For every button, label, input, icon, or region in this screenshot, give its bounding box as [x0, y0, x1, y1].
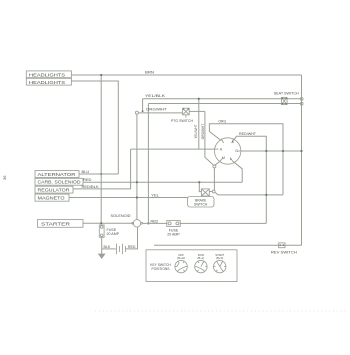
legend circle OFF	[175, 253, 187, 273]
tick bottom-right L	[230, 158, 232, 161]
wire rev switch row	[154, 244, 302, 246]
node brake terminal	[212, 190, 215, 193]
svg-text:POSITIONS: POSITIONS	[152, 267, 171, 271]
junction V4 YEL row	[136, 196, 138, 198]
brake switch callout	[188, 197, 215, 208]
junction V4 RED row	[136, 181, 138, 183]
carb solenoid box	[35, 178, 83, 185]
wire YEL/BLK row (upper seat wire)	[143, 98, 302, 100]
svg-text:36: 36	[2, 175, 7, 180]
wire M junction down to brake node	[213, 168, 215, 190]
junction brake red/wht	[265, 194, 267, 196]
ground symbol	[98, 249, 106, 259]
svg-text:G: G	[235, 149, 238, 153]
solenoid circle	[132, 220, 143, 227]
svg-text:HEADLIGHTS: HEADLIGHTS	[29, 72, 65, 77]
label FUSE 20 AMP	[107, 228, 120, 236]
node ORG/WHT open terminal	[135, 111, 138, 114]
wire V8 down + diagonal to M junction	[205, 111, 213, 164]
wire BLU row	[79, 173, 118, 175]
wire brake row right	[215, 192, 283, 195]
regulator box	[35, 186, 73, 193]
wire vertical from BRN junction down to starter wire	[100, 75, 102, 223]
svg-text:STARTER: STARTER	[41, 222, 70, 227]
fuse F1 vertical	[99, 225, 104, 237]
svg-text:ORG: ORG	[218, 119, 226, 123]
pto switch PTO	[183, 108, 190, 115]
wire A terminal row	[131, 148, 215, 150]
battery symbol	[117, 244, 126, 255]
wire BRN headlight1 to right vertical	[71, 74, 301, 76]
wire starter row	[83, 222, 133, 224]
wire fuse2 to red/wht vertical	[180, 222, 266, 224]
wire battery BLK lead	[102, 248, 116, 250]
node seat terminal upper	[300, 98, 303, 101]
svg-text:YEL/WHT: YEL/WHT	[194, 124, 198, 138]
svg-text:YEL/BLK: YEL/BLK	[145, 94, 166, 98]
svg-text:SWITCH: SWITCH	[194, 203, 208, 207]
headlight box 1	[26, 71, 71, 78]
junction B right	[300, 150, 302, 152]
svg-text:SEAT SWITCH: SEAT SWITCH	[274, 92, 300, 96]
fuse F2 horizontal	[167, 220, 180, 226]
wire M diagonal	[214, 161, 220, 165]
tick bottom-left M	[220, 158, 223, 161]
key switch circle U1	[215, 138, 241, 164]
junction brake feed	[198, 181, 200, 183]
rev switch symbol	[279, 243, 285, 248]
label FUSE 20 AMP f2	[167, 229, 180, 237]
wire ORG/WHT row	[138, 112, 182, 114]
wire YEL/BLK drop to ORG/WHT row	[142, 99, 144, 112]
wire headlight2 down to BLU row	[71, 81, 118, 174]
svg-text:RED: RED	[128, 245, 136, 249]
wire vertical seat-lower to RED fuse wire	[147, 104, 149, 224]
node M junction	[213, 165, 216, 168]
svg-text:REV SWITCH: REV SWITCH	[271, 251, 297, 255]
svg-text:BLU: BLU	[82, 169, 90, 174]
wire solenoid to fuse2 RED	[143, 222, 167, 224]
wire ORG/WHT continues to V8	[189, 110, 205, 112]
wire right vertical BRN down to rev switch	[301, 75, 303, 245]
wire brake switch to node	[209, 191, 212, 193]
svg-text:YEL: YEL	[151, 192, 159, 197]
tick A	[215, 148, 219, 150]
svg-text:HEADLIGHTS: HEADLIGHTS	[29, 80, 65, 85]
legend circle START	[214, 253, 226, 273]
legend text KEY SWITCH POSITIONS	[150, 263, 171, 271]
svg-text:ALTERNATOR: ALTERNATOR	[38, 172, 76, 177]
node seat terminal lower	[300, 102, 303, 105]
wire battery RED lead up to solenoid	[126, 227, 138, 249]
svg-text:MAGNETO: MAGNETO	[38, 196, 65, 201]
wire lower seat row down to fuse RED wire	[148, 103, 301, 105]
junction BLU	[100, 173, 102, 175]
wire RED row	[83, 181, 242, 183]
legend circle RUN	[195, 253, 207, 273]
svg-text:L: L	[230, 157, 232, 161]
wire RED/BLK row up to A wire	[73, 149, 131, 189]
wire L diagonal down to RED row end	[233, 161, 243, 182]
svg-text:REGULATOR: REGULATOR	[38, 188, 70, 193]
brake switch symbol	[201, 189, 209, 196]
legend box	[146, 250, 237, 282]
svg-text:(M+G): (M+G)	[177, 256, 185, 260]
wire YEL row to brake callout	[69, 197, 188, 199]
wire pto stub	[185, 115, 187, 118]
headlight box 2	[26, 78, 71, 85]
magneto box	[35, 194, 69, 201]
alternator box	[35, 171, 79, 178]
seat switch symbol	[281, 97, 287, 104]
tick top-right S	[232, 139, 234, 143]
svg-text:(B+L): (B+L)	[197, 256, 204, 260]
svg-text:BLK: BLK	[104, 245, 111, 249]
svg-text:PTO SWITCH: PTO SWITCH	[171, 119, 193, 123]
junction B red/wht	[265, 150, 267, 152]
junction at RED fuse wire	[147, 222, 149, 224]
svg-text:RED/WHT: RED/WHT	[239, 132, 256, 136]
wire V4 from ORG/WHT terminal down to solenoid	[136, 114, 138, 219]
svg-text:20 AMP: 20 AMP	[167, 233, 180, 237]
svg-text:RED/BLK: RED/BLK	[82, 184, 99, 189]
wire RED/WHT path	[234, 136, 266, 223]
tick right G	[237, 150, 241, 152]
junction BRN	[100, 74, 102, 76]
scan noise dotted line	[95, 310, 348, 312]
tick top-left B	[221, 139, 223, 143]
svg-text:M: M	[222, 156, 225, 160]
svg-text:ORG/WHT: ORG/WHT	[201, 124, 205, 139]
junction YEL/BLK drop	[142, 110, 144, 112]
wire V7 YEL/BLK branch down to A wire	[198, 99, 200, 149]
wire ORG path	[209, 124, 283, 195]
svg-text:BRN: BRN	[145, 71, 155, 75]
svg-text:CARB. SOLENIOD: CARB. SOLENIOD	[38, 180, 81, 185]
svg-text:RED: RED	[151, 219, 159, 223]
starter box	[38, 220, 84, 228]
wire B row to right vertical	[241, 150, 302, 152]
svg-text:RED: RED	[83, 177, 92, 182]
svg-text:SOLENOID: SOLENOID	[111, 214, 131, 218]
svg-text:(B+S): (B+S)	[216, 256, 223, 260]
junction on YEL/BLK	[198, 98, 200, 100]
junction starter fuse	[100, 222, 102, 224]
svg-text:ORG/WHT: ORG/WHT	[146, 108, 167, 112]
wire fuse to battery row	[101, 237, 103, 249]
svg-text:20 AMP: 20 AMP	[107, 232, 120, 236]
junction B org	[282, 150, 284, 152]
wire brake feed from RED row	[199, 182, 201, 191]
